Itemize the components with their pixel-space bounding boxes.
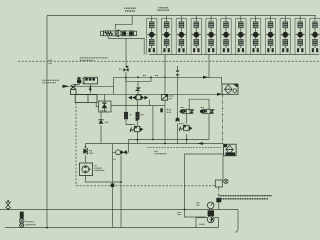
wire pump outlet path — [108, 36, 144, 55]
label cluster left — [43, 80, 60, 83]
wire main pressure line — [114, 76, 209, 78]
wire breather stub — [218, 202, 220, 209]
node J2 — [137, 76, 139, 78]
arrow return flow — [217, 93, 223, 96]
wire orifice to pump — [137, 91, 139, 95]
node J11 — [46, 227, 48, 229]
label bus note — [155, 151, 167, 153]
throttle valve TV1 — [130, 125, 144, 133]
wire valve bank bus — [149, 54, 319, 56]
inline valve tick — [111, 184, 115, 188]
label plate top bank — [157, 8, 169, 10]
wire loop branch — [137, 81, 139, 87]
wire filter2 return line — [185, 154, 224, 217]
oil tank T1 — [196, 218, 219, 228]
dashed throttle line mid — [147, 146, 223, 148]
shutoff glyph under breather — [216, 198, 221, 203]
dashed boundary line A — [18, 60, 320, 62]
pilot check valve unit 2 — [161, 16, 171, 55]
wire valve1 stem — [186, 114, 188, 143]
gear pump P1 assembly — [128, 95, 148, 100]
pilot check valve unit 6 — [221, 16, 231, 55]
pilot check valve unit 8 — [250, 16, 260, 55]
solenoid vent valve Y0 — [162, 95, 174, 101]
wire valve sub box — [189, 99, 209, 110]
node J7 — [137, 139, 139, 141]
node J10 — [120, 181, 122, 183]
wire step down to manifold — [113, 77, 115, 94]
sequence valve bar B1 — [160, 108, 171, 112]
wire hand pump drain — [85, 175, 121, 182]
node J5 — [152, 139, 154, 141]
wire bus line 1 — [129, 139, 210, 141]
directional manifold block DX1 — [84, 77, 98, 84]
wire long drop left — [112, 144, 114, 228]
wire pump suction drop — [115, 16, 132, 30]
wire comb corner — [128, 140, 130, 153]
label tank — [199, 223, 205, 225]
wire relief drain — [100, 112, 102, 144]
wire filter2 outlet — [222, 156, 224, 180]
shutoff valve K1 — [124, 112, 131, 119]
wire filter feed — [209, 77, 222, 84]
pilot check valve unit 7 — [236, 16, 246, 55]
pilot check valve unit 3 — [176, 16, 186, 55]
wire branch x126 — [126, 77, 132, 124]
node J3 — [150, 76, 152, 78]
node J9 — [184, 209, 186, 211]
circulation pump P2 — [207, 216, 214, 223]
wire left rail — [46, 16, 48, 228]
orifice Z1 — [136, 88, 140, 91]
wire bottom tank line — [5, 227, 219, 229]
wire bus line 2 — [85, 143, 223, 145]
wire long return line — [0, 209, 238, 211]
label sprinkler — [80, 58, 108, 61]
arrow bus flow — [197, 142, 203, 145]
wire bank drop 1 — [164, 55, 166, 95]
check valve C1 — [98, 120, 108, 124]
hand pump HP1 — [79, 163, 104, 175]
wire manifold line — [75, 93, 222, 95]
node J6 — [164, 143, 166, 145]
subplate block — [75, 95, 97, 103]
wire pump branch down — [125, 38, 127, 66]
hand valve HV1 — [113, 150, 126, 159]
pilot check valve unit 4 — [191, 16, 201, 55]
pilot check valve unit 1 — [147, 16, 157, 55]
label DX1 — [49, 60, 53, 63]
pilot check valve unit 9 — [265, 16, 275, 55]
wire pilot arrow line — [70, 85, 114, 87]
wire long drop right — [120, 155, 122, 228]
node J4 — [164, 76, 166, 78]
check valve C3 — [176, 117, 180, 122]
return filter F1 — [222, 84, 238, 94]
wire mid inter line — [111, 105, 165, 107]
test coupling X1 — [5, 200, 10, 211]
arrow pilot flow — [63, 85, 70, 88]
wire valve stub — [113, 151, 129, 153]
breather box — [215, 180, 222, 187]
wire mid drop — [152, 106, 154, 140]
wire subplate to relief — [96, 103, 98, 107]
pilot check valve unit 11 — [295, 16, 305, 55]
dashed pump enclosure left edge — [75, 103, 77, 186]
wire manifold pilot drop — [89, 84, 91, 93]
pressure gauge G1 — [196, 202, 214, 209]
solenoid valve DT2 — [200, 108, 214, 114]
pilot check valve unit 10 — [280, 16, 290, 55]
breather indicator — [224, 179, 228, 183]
solenoid stack SV1 — [71, 78, 84, 95]
suction valve SV2 — [83, 144, 93, 164]
label line small — [143, 75, 158, 77]
wire branch x137 — [137, 100, 139, 144]
shutoff valve K2 — [136, 112, 144, 121]
wire drain to tank with hook — [235, 210, 238, 233]
pilot check valve unit 12 — [310, 16, 320, 55]
label jog note — [177, 212, 181, 214]
motor-pump group M1 — [101, 30, 137, 37]
wire pump right stub — [148, 100, 150, 106]
wire bank drop 2 — [208, 55, 210, 79]
node J1 — [125, 76, 127, 78]
damper block D1 — [208, 210, 214, 216]
relief valve RV1 — [99, 94, 112, 112]
wire bypass loop — [126, 77, 151, 81]
dash-dot breather center line — [218, 187, 220, 198]
ball valve S1 — [119, 66, 129, 77]
wire valve2 lower drop — [208, 114, 210, 139]
label plate top center — [124, 8, 136, 11]
throttle valve TV2 — [179, 124, 193, 132]
arrow manifold pilot — [89, 85, 92, 90]
check valve C2 — [175, 66, 179, 144]
solenoid valve DT1 — [180, 108, 194, 114]
arrow flow to filter — [203, 76, 209, 79]
wire vent drop — [164, 100, 166, 143]
wire top rail — [47, 15, 316, 17]
dashed boundary line B — [76, 185, 215, 187]
pressure filter F2 — [224, 144, 237, 156]
node J8 — [186, 139, 188, 141]
label annotation right — [220, 196, 273, 199]
pilot check valve unit 5 — [206, 16, 216, 55]
dash-dot filter center line — [222, 95, 224, 145]
level gauge LG1 — [19, 212, 35, 228]
